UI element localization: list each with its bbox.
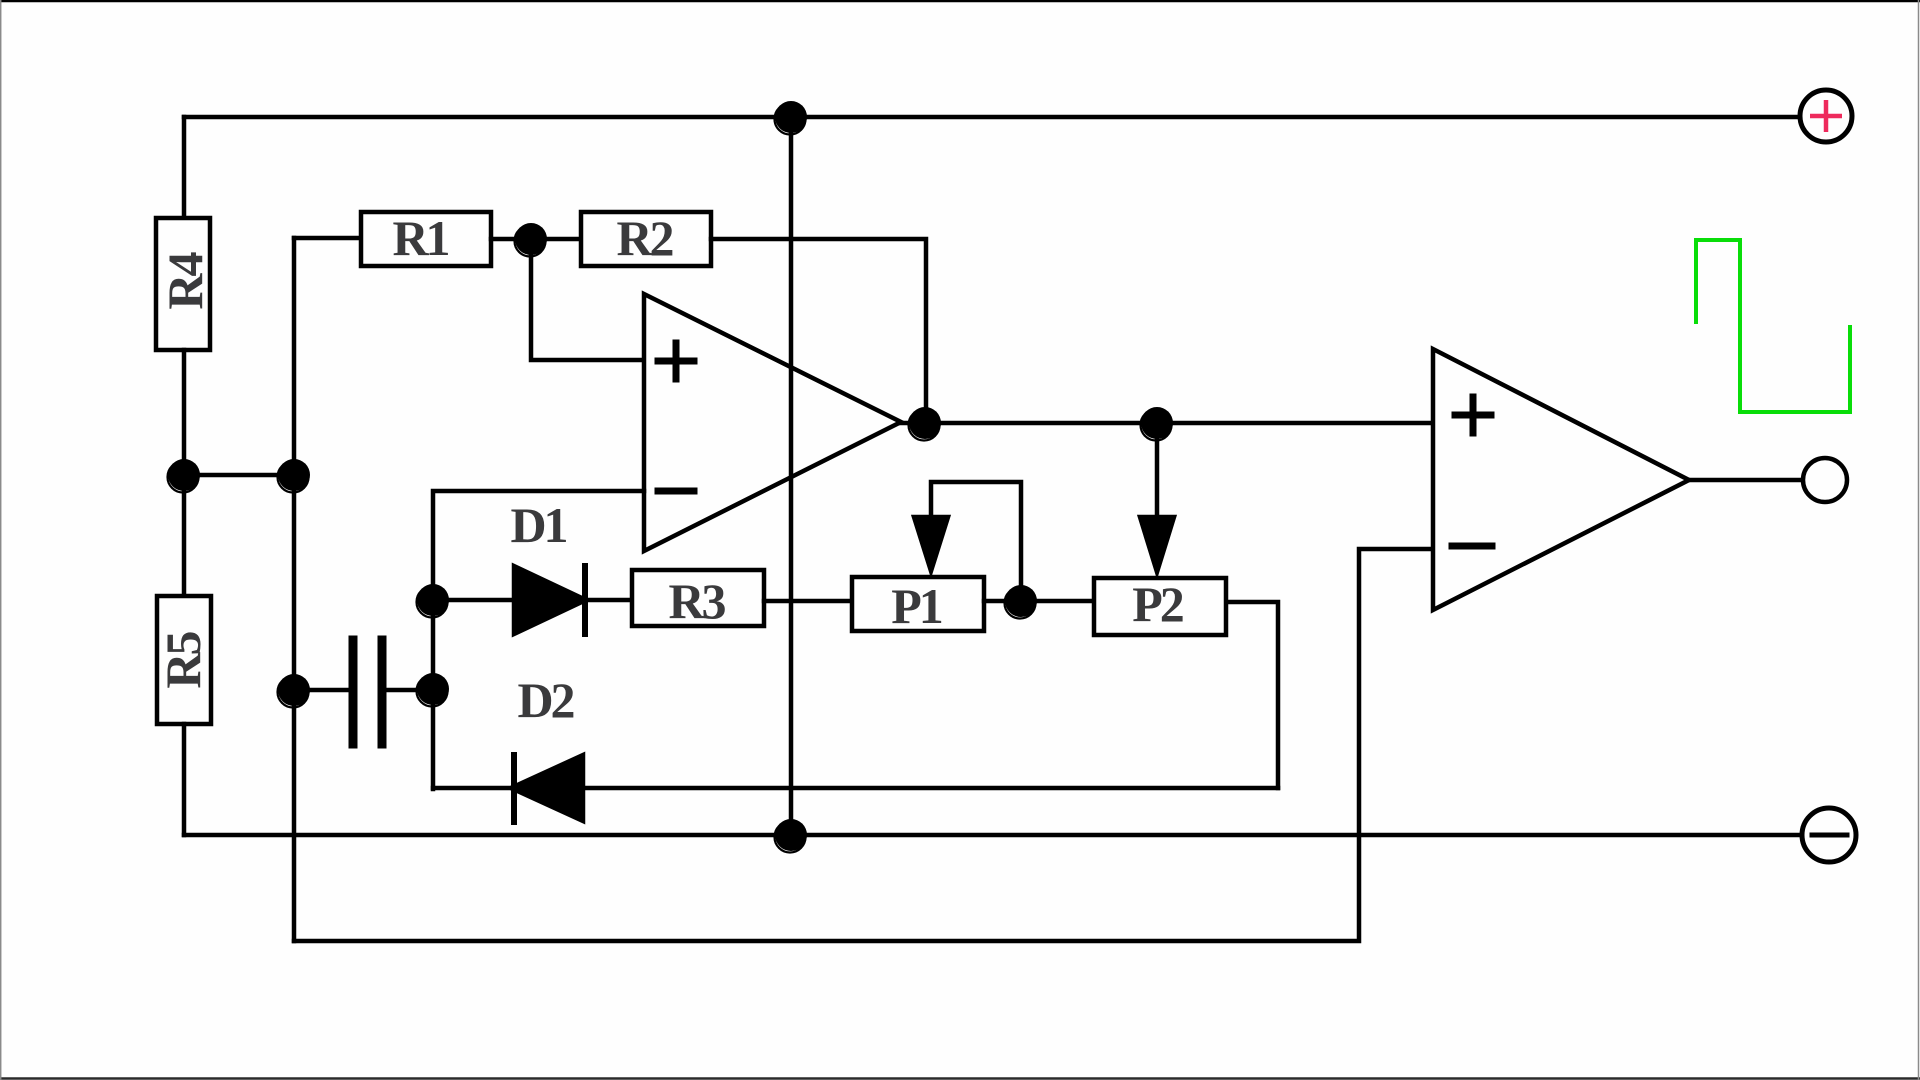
frame bottom border bbox=[0, 1077, 1920, 1080]
resistor R1 bbox=[361, 212, 491, 266]
wire to R1 left bbox=[294, 236, 361, 241]
svg-text:D2: D2 bbox=[517, 672, 573, 728]
wire U2 output bbox=[1689, 478, 1803, 483]
wire P1 wiper bracket bbox=[931, 482, 1021, 601]
wire R4 to R5 bbox=[182, 350, 187, 598]
node divider tap right bbox=[278, 459, 310, 491]
wire supply vertical bbox=[789, 117, 794, 835]
wire vertical x294 bbox=[292, 238, 297, 941]
svg-text:P1: P1 bbox=[891, 578, 942, 634]
node D1 anode bbox=[417, 584, 449, 616]
node U1 output bbox=[909, 407, 941, 439]
resistor R4 bbox=[156, 218, 210, 350]
frame right border bbox=[1918, 0, 1920, 1080]
potentiometer P1 bbox=[852, 577, 984, 631]
node divider tap left bbox=[168, 459, 200, 491]
frame left border bbox=[0, 0, 2, 1080]
plus sign positive terminal bbox=[1810, 100, 1842, 132]
resistor R3 bbox=[632, 570, 764, 626]
svg-text:R5: R5 bbox=[155, 631, 211, 688]
svg-text:R4: R4 bbox=[157, 251, 213, 309]
wire left drop to R4 bbox=[182, 117, 187, 220]
wire D2 cathode line bbox=[433, 786, 1278, 791]
wire noninverting input U1 bbox=[531, 239, 644, 360]
wire bottom rail bbox=[184, 833, 1803, 838]
node bottom rail bbox=[775, 819, 807, 851]
wire P2 right to D2 line bbox=[1227, 602, 1278, 788]
node R1-R2 bbox=[515, 223, 547, 255]
terminal output bbox=[1803, 458, 1847, 502]
frame top border bbox=[0, 0, 1920, 2]
wire R3 to P1 bbox=[764, 599, 852, 604]
node cap left bbox=[278, 674, 310, 706]
wire feedback to U2 inverting bbox=[294, 549, 1433, 941]
svg-text:D1: D1 bbox=[510, 497, 566, 553]
wire P2 wiper bbox=[1155, 423, 1160, 520]
svg-text:R3: R3 bbox=[668, 573, 725, 629]
op-amp U1 bbox=[644, 294, 901, 551]
wire divider tap bbox=[184, 473, 294, 478]
diode D2 bbox=[511, 755, 583, 821]
terminal negative bbox=[1802, 808, 1856, 862]
node cap right bbox=[417, 673, 449, 705]
wire R1 to R2 bbox=[491, 237, 581, 242]
wire U1 output to U2 bbox=[901, 421, 1433, 426]
wire R2 right feedback bbox=[711, 239, 926, 423]
waveform icon bbox=[1696, 240, 1850, 412]
node output to P2 wiper bbox=[1141, 407, 1173, 439]
wire R5 to bottom rail bbox=[182, 724, 187, 835]
svg-text:R1: R1 bbox=[392, 210, 448, 266]
svg-text:R2: R2 bbox=[616, 210, 672, 266]
op-amp U2 bbox=[1433, 349, 1689, 610]
potentiometer P2 bbox=[1094, 578, 1226, 635]
node top rail bbox=[775, 101, 807, 133]
terminal positive bbox=[1800, 90, 1852, 142]
node P1-P2 bbox=[1005, 585, 1037, 617]
resistor R2 bbox=[581, 212, 711, 266]
resistor R5 bbox=[157, 596, 211, 724]
wire top rail bbox=[184, 115, 1800, 120]
diode D1 bbox=[514, 566, 586, 634]
wire inverting input U1 bbox=[433, 491, 644, 789]
wire D1 to R3 bbox=[585, 598, 632, 603]
wire P1 to P2 bbox=[984, 599, 1096, 604]
wire D1 anode bbox=[433, 598, 516, 603]
svg-text:P2: P2 bbox=[1132, 576, 1183, 632]
capacitor C1 bbox=[294, 688, 353, 693]
